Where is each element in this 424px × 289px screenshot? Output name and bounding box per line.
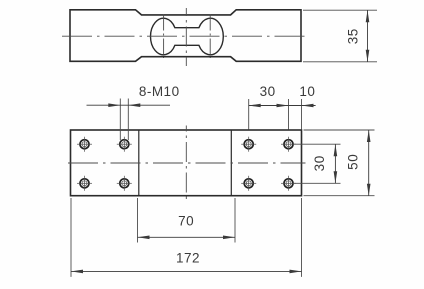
svg-text:30: 30 — [312, 155, 327, 171]
dimension 35: extension lines — [303, 9, 377, 11]
dimension 50: extension lines — [304, 129, 375, 131]
svg-text:70: 70 — [178, 214, 194, 229]
dimension 70: extension lines — [137, 198, 139, 243]
hole M10 #1 (top-left) — [77, 137, 92, 152]
vertical centerline left lobe — [163, 15, 165, 59]
hole M10 #8 (bottom-right) — [281, 176, 296, 191]
vertical centerline (bottom view) — [185, 126, 187, 201]
hole M10 #2 (top, 2nd column) — [117, 137, 132, 152]
svg-text:35: 35 — [345, 28, 360, 44]
hole M10 #7 (bottom, 3rd column) — [241, 176, 256, 191]
hole M10 #6 (bottom, 2nd column) — [117, 176, 132, 191]
hole M10 #5 (bottom-left) — [77, 176, 92, 191]
bottom view: left inner edge — [138, 130, 140, 196]
vertical centerline right lobe — [209, 15, 211, 59]
bottom view: plan outline — [71, 130, 302, 196]
dimension 30 (right): dimension line with arrows — [334, 144, 338, 183]
top view: load cell body outline — [70, 10, 301, 62]
svg-text:50: 50 — [345, 154, 360, 170]
dimension 30/10: dimension line with arrows — [249, 104, 316, 108]
bottom view: right inner edge — [230, 130, 232, 196]
hole M10 #4 (top-right) — [281, 137, 296, 152]
dimension 172: extension lines — [70, 198, 72, 277]
binocular cutout (dog-bone hole) — [151, 18, 224, 55]
svg-text:30: 30 — [260, 84, 276, 99]
dimension 8-M10: dimension line with outside arrows — [87, 103, 171, 107]
dimension 50: dimension line with arrows — [367, 130, 371, 196]
dimension 8-M10: extension lines (tangent to hole) — [119, 99, 121, 141]
dimension 70: dimension line with arrows — [138, 236, 236, 240]
svg-text:10: 10 — [299, 84, 315, 99]
dimension 10: extension line at right edge — [301, 99, 303, 130]
horizontal centerline (bottom view) — [68, 162, 306, 164]
svg-text:8-M10: 8-M10 — [139, 84, 180, 99]
horizontal centerline (top view) — [62, 35, 307, 37]
dimension 30 (right, hole spacing): extension lines — [294, 143, 341, 145]
hole M10 #3 (top, 3rd column) — [241, 137, 256, 152]
dimension 35: dimension line with arrows — [366, 10, 370, 62]
svg-text:172: 172 — [176, 251, 200, 266]
dimension 172: dimension line with arrows — [71, 270, 302, 274]
vertical centerline middle (top view) — [185, 8, 187, 66]
dimension 30 (top): extension lines — [248, 99, 250, 130]
